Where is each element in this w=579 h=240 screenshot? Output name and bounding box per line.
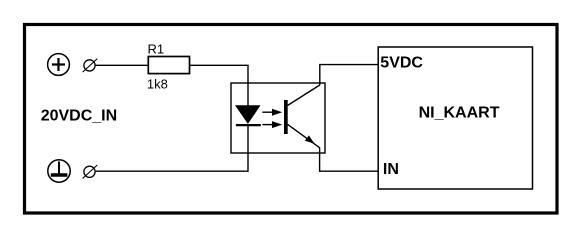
connector pin bottom [83,165,98,179]
connector pin top [83,59,98,73]
terminal + (plus) symbol [48,54,70,76]
phototransistor [284,85,320,148]
svg-text:NI_KAART: NI_KAART [419,104,500,121]
border frame [25,25,558,214]
svg-text:IN: IN [383,161,399,178]
light arrow 1 [262,109,282,116]
emitter line [288,124,320,147]
wire terminal to R1 [95,64,148,66]
NI_KAART card box [378,47,532,189]
wire emitter to IN [320,148,379,172]
optocoupler box [231,83,325,153]
svg-text:5VDC: 5VDC [380,55,423,72]
wire LED cathode to ground pin [96,125,248,171]
light arrow 2 [262,121,282,128]
ground terminal symbol [48,160,70,182]
resistor R1 [148,57,189,74]
svg-text:20VDC_IN: 20VDC_IN [41,108,117,125]
svg-text:R1: R1 [148,41,165,56]
wire R1 to LED anode [190,65,249,106]
wire collector to 5VDC [320,65,378,85]
svg-text:1k8: 1k8 [147,77,168,92]
LED diode [236,106,261,125]
collector line [288,85,320,106]
